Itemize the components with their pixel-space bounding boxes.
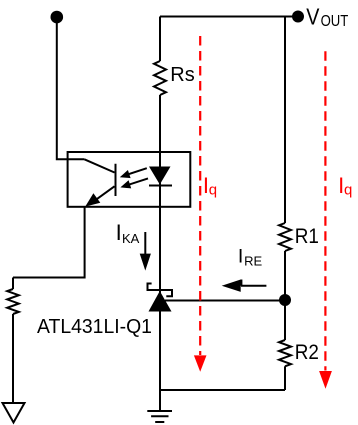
svg-text:I: I: [238, 246, 243, 268]
svg-text:ATL431LI-Q1: ATL431LI-Q1: [37, 316, 152, 338]
svg-text:q: q: [344, 182, 352, 199]
svg-text:R1: R1: [295, 225, 319, 248]
svg-text:OUT: OUT: [321, 13, 349, 30]
svg-text:V: V: [306, 3, 320, 30]
svg-text:R2: R2: [295, 341, 319, 364]
svg-text:q: q: [209, 182, 217, 199]
svg-text:Rs: Rs: [170, 64, 194, 86]
svg-text:I: I: [116, 220, 122, 245]
svg-text:RE: RE: [244, 253, 262, 268]
svg-text:KA: KA: [122, 231, 140, 246]
